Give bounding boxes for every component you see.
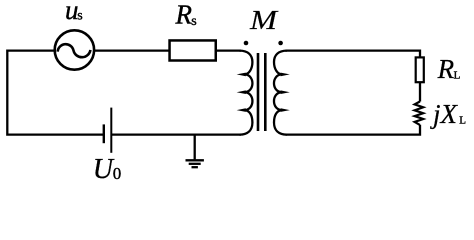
resistor RL body: [416, 57, 424, 82]
wire secondary winding to RL: [286, 51, 421, 58]
svg-text:R: R: [175, 0, 193, 30]
wire jXL to bottom and bottom-right wire: [286, 125, 421, 135]
svg-text:U: U: [93, 154, 115, 185]
ground bar 3: [192, 166, 198, 168]
wire RL to jXL: [419, 83, 421, 102]
wire Rs to primary winding: [216, 49, 242, 51]
transformer primary cusp wedges: [237, 73, 246, 77]
ac source sine wave: [58, 44, 91, 57]
polarity dot secondary: [278, 41, 283, 46]
transformer secondary cusp wedges: [281, 73, 290, 77]
transformer secondary winding: [274, 51, 287, 135]
svg-text:s: s: [77, 9, 82, 24]
svg-text:jX: jX: [430, 99, 459, 129]
battery U0 short plate: [103, 124, 105, 143]
svg-text:M: M: [249, 5, 279, 35]
svg-text:L: L: [459, 114, 466, 126]
transformer core line 1: [257, 53, 260, 131]
resistor Rs body: [170, 40, 216, 60]
svg-text:R: R: [437, 54, 455, 84]
reactance jXL zigzag: [415, 102, 424, 125]
ground bar 2: [189, 163, 201, 165]
wire source to Rs: [94, 49, 170, 51]
battery U0 long plate: [110, 108, 112, 153]
polarity dot primary: [244, 41, 249, 46]
ac source u_s circle: [55, 30, 94, 69]
wire ground stub: [194, 134, 196, 160]
transformer primary winding: [240, 51, 253, 135]
svg-text:s: s: [191, 14, 196, 29]
ground bar 1: [186, 159, 204, 161]
svg-text:L: L: [454, 69, 461, 81]
transformer core line 2: [264, 53, 267, 131]
wire left loop (top-left, left side, bottom-left): [7, 51, 103, 135]
svg-text:0: 0: [113, 164, 122, 183]
wire battery to primary winding bottom: [112, 133, 241, 135]
